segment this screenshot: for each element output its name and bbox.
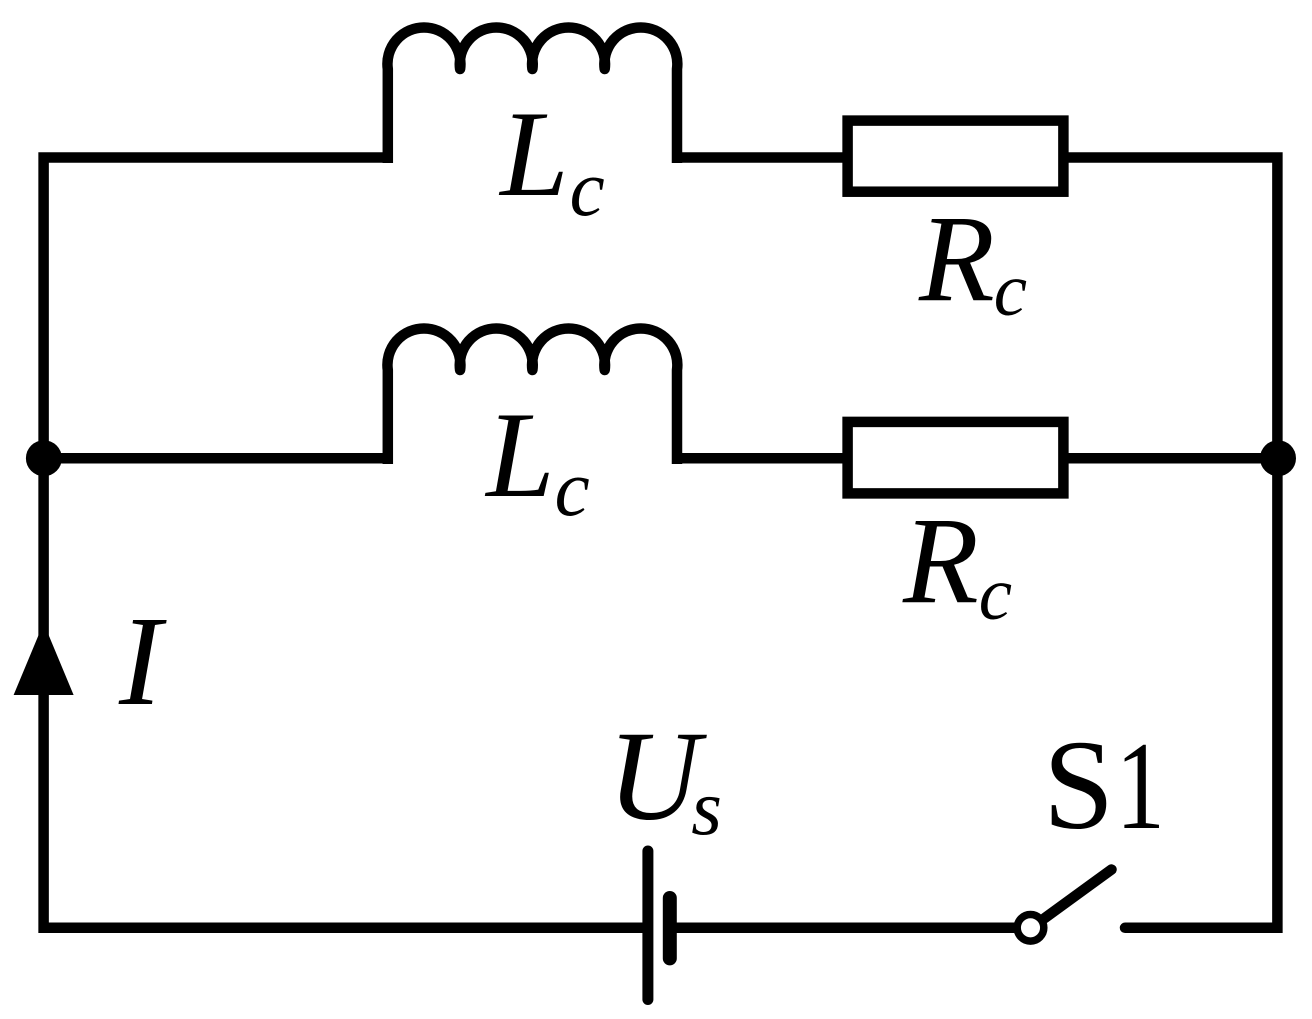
svg-text:c: c (979, 553, 1012, 636)
svg-text:c: c (555, 446, 590, 533)
svg-text:S: S (1043, 714, 1114, 856)
svg-text:L: L (484, 386, 554, 523)
svg-text:R: R (902, 492, 979, 629)
svg-text:1: 1 (1116, 716, 1165, 855)
svg-text:L: L (498, 85, 568, 222)
svg-text:c: c (994, 249, 1027, 332)
svg-text:s: s (691, 765, 722, 852)
svg-text:I: I (118, 590, 167, 732)
svg-text:c: c (570, 146, 605, 233)
svg-text:R: R (918, 190, 995, 327)
